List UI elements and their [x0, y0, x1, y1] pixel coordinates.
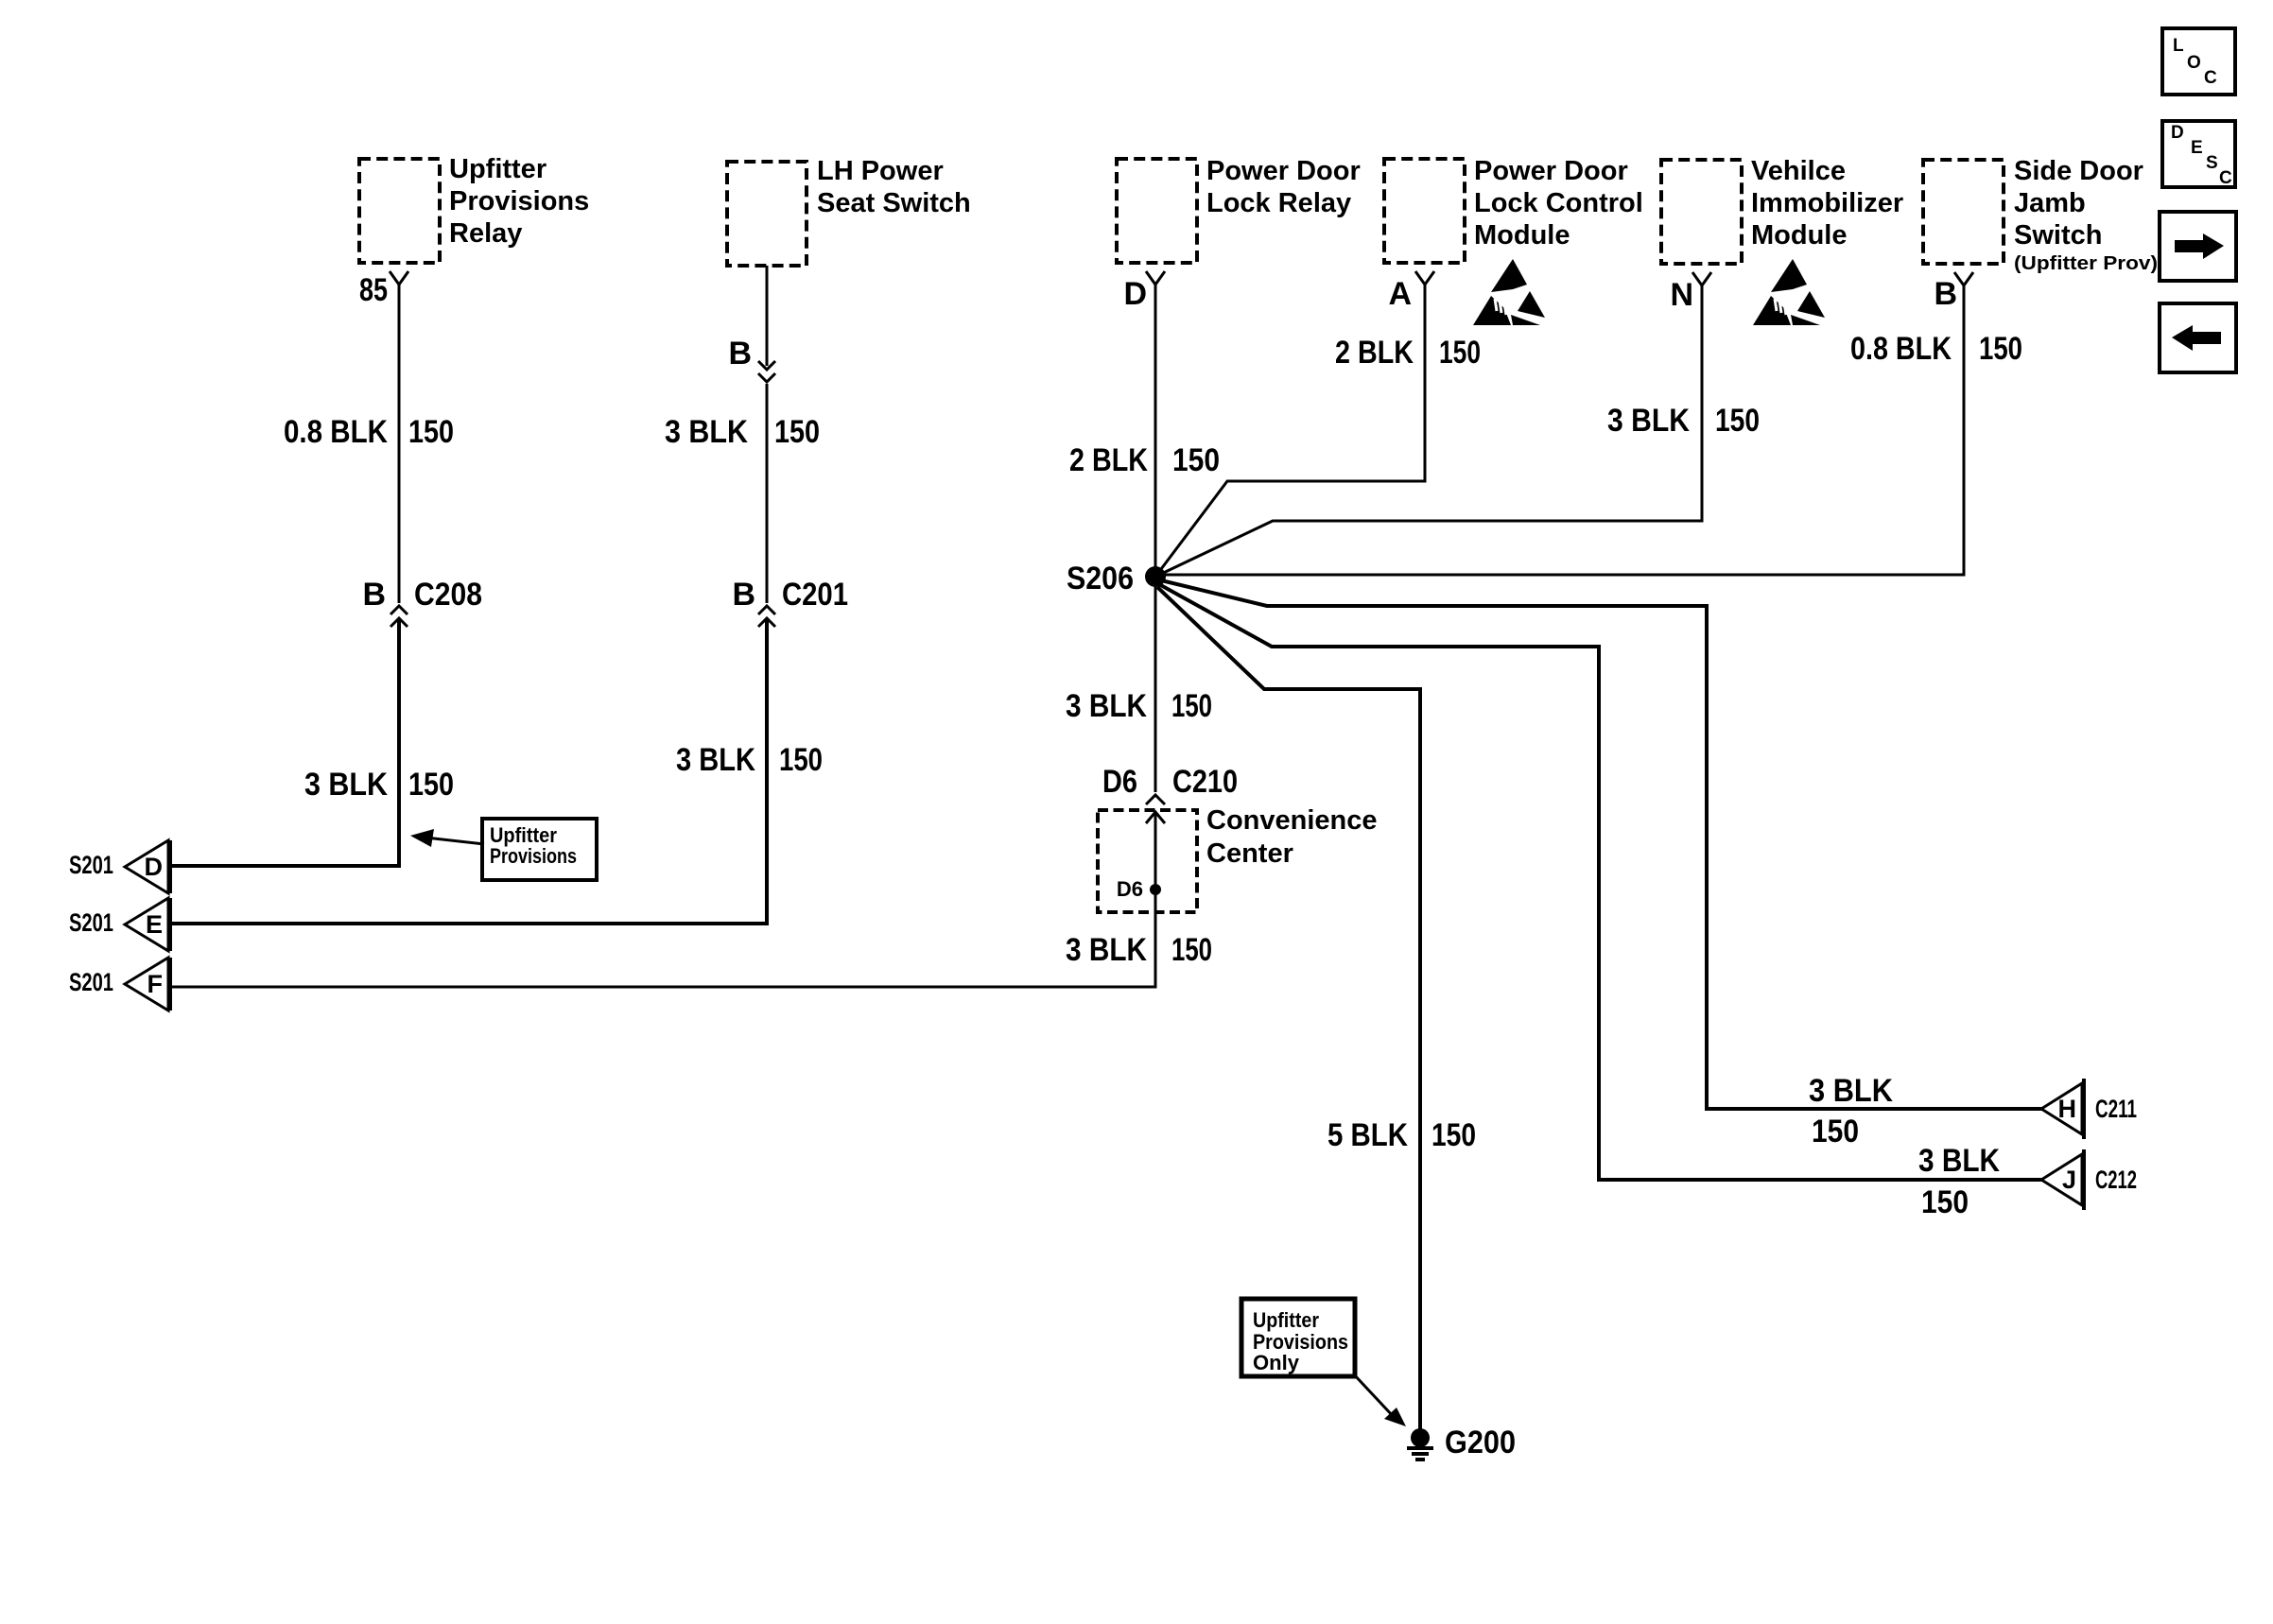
svg-text:Upfitter: Upfitter: [449, 154, 547, 184]
svg-text:LH Power: LH Power: [817, 156, 944, 186]
wire: inside Convenience Center through D6 to corner, left to S201 F: [170, 815, 1155, 987]
svg-text:G200: G200: [1445, 1425, 1516, 1460]
svg-text:D6: D6: [1117, 877, 1143, 901]
svg-text:Module: Module: [1474, 220, 1570, 251]
wire: S206 diagonal to ground branch: [1157, 587, 1420, 1429]
svg-text:A: A: [1388, 276, 1412, 312]
svg-text:150: 150: [774, 414, 820, 450]
svg-text:3 BLK: 3 BLK: [1918, 1143, 2000, 1179]
svg-text:C211: C211: [2095, 1095, 2137, 1123]
svg-text:Only: Only: [1253, 1351, 1300, 1374]
svg-text:C: C: [2219, 168, 2232, 188]
connector C201 double chevron: [758, 606, 775, 627]
svg-text:Lock Control: Lock Control: [1474, 188, 1643, 218]
connector C210 chevron: [1146, 795, 1165, 804]
pin connector Y at pin D: [1146, 271, 1165, 288]
svg-text:C: C: [2204, 68, 2217, 88]
wire: S206 diagonal to J C212 branch: [1157, 583, 2042, 1180]
svg-text:150: 150: [1171, 932, 1212, 968]
svg-text:5 BLK: 5 BLK: [1327, 1117, 1408, 1153]
component box: LH Power Seat Switch: [727, 162, 807, 266]
svg-text:150: 150: [1171, 688, 1212, 724]
svg-text:S201: S201: [69, 851, 113, 879]
wire: S206 horizontal to B branch of side door jamb switch: [1155, 289, 1964, 575]
svg-text:Immobilizer: Immobilizer: [1751, 188, 1903, 218]
splice triangle S201 F: [125, 958, 168, 1011]
wire: S206 diagonal to A branch: [1155, 288, 1425, 577]
svg-text:Relay: Relay: [449, 218, 522, 249]
ESD symbol near Vehicle Immobilizer Module: [1753, 259, 1825, 325]
svg-text:3 BLK: 3 BLK: [1607, 403, 1690, 439]
pin connector Y at pin B of Side Door Jamb Switch: [1954, 272, 1973, 289]
wire: S206 down to connector C210: [1154, 577, 1157, 792]
svg-text:0.8 BLK: 0.8 BLK: [1850, 331, 1952, 367]
component box: Power Door Lock Relay: [1117, 159, 1197, 263]
svg-text:D: D: [1123, 276, 1147, 312]
svg-text:Center: Center: [1206, 838, 1293, 869]
svg-text:S201: S201: [69, 968, 113, 996]
svg-text:Module: Module: [1751, 220, 1848, 251]
svg-text:2 BLK: 2 BLK: [1335, 335, 1414, 371]
svg-text:E: E: [2191, 138, 2203, 158]
svg-text:3 BLK: 3 BLK: [676, 742, 755, 778]
svg-text:150: 150: [1921, 1184, 1969, 1220]
callout box: Upfitter Provisions Only: [1241, 1299, 1355, 1376]
svg-text:D6: D6: [1102, 764, 1137, 800]
wire: S206 diagonal to H C211 branch: [1157, 579, 2042, 1109]
component box: Upfitter Provisions Relay: [359, 159, 440, 263]
svg-text:150: 150: [1715, 403, 1760, 439]
svg-text:B: B: [732, 577, 755, 613]
svg-text:C208: C208: [414, 577, 482, 613]
svg-text:S: S: [2206, 153, 2218, 173]
svg-text:Lock Relay: Lock Relay: [1206, 188, 1351, 218]
svg-text:150: 150: [779, 742, 823, 778]
svg-text:150: 150: [1439, 335, 1481, 371]
svg-text:150: 150: [1812, 1114, 1859, 1149]
splice node S206: [1145, 566, 1166, 587]
svg-text:Convenience: Convenience: [1206, 805, 1378, 836]
callout box: Upfitter Provisions: [482, 819, 597, 880]
svg-text:D: D: [145, 853, 164, 881]
svg-text:85: 85: [359, 272, 388, 308]
component box: Convenience Center: [1098, 810, 1197, 912]
wire: C201 down to corner, left to S201 E: [170, 620, 767, 924]
svg-text:Power Door: Power Door: [1206, 156, 1361, 186]
callout arrow to wire: [425, 838, 484, 844]
svg-text:150: 150: [408, 414, 454, 450]
svg-text:C210: C210: [1172, 764, 1238, 800]
svg-text:B: B: [728, 336, 752, 371]
ESD symbol near Power Door Lock Control Module: [1473, 259, 1545, 325]
node D6 inside Convenience Center: [1150, 884, 1161, 895]
wire: pin D down to splice S206: [1154, 285, 1157, 577]
svg-text:(Upfitter Prov): (Upfitter Prov): [2014, 253, 2158, 274]
svg-text:S206: S206: [1067, 561, 1134, 596]
svg-text:Vehilce: Vehilce: [1751, 156, 1846, 186]
svg-text:Seat Switch: Seat Switch: [817, 188, 971, 218]
pin connector Y at pin N: [1692, 272, 1711, 289]
svg-text:2 BLK: 2 BLK: [1069, 442, 1148, 478]
svg-text:150: 150: [1979, 331, 2022, 367]
connector triangle J C212: [2041, 1154, 2082, 1205]
svg-text:Upfitter: Upfitter: [1253, 1308, 1319, 1332]
right arrow navigation box: [2160, 212, 2236, 281]
svg-text:0.8 BLK: 0.8 BLK: [284, 414, 388, 450]
component box: Power Door Lock Control Module: [1384, 159, 1465, 263]
svg-text:3 BLK: 3 BLK: [304, 767, 388, 803]
connector triangle H C211: [2041, 1083, 2082, 1134]
svg-text:B: B: [362, 577, 386, 613]
svg-text:F: F: [147, 970, 164, 998]
ground G200 symbol: [1411, 1428, 1430, 1447]
connector C208 double chevron: [390, 606, 408, 627]
wire: LH Power Seat Switch pin B down: [766, 266, 769, 366]
svg-text:C201: C201: [782, 577, 848, 613]
wire: C208 down to corner, left to S201 D: [170, 620, 399, 866]
left arrow navigation box: [2160, 303, 2236, 372]
svg-text:S201: S201: [69, 908, 113, 937]
svg-text:C212: C212: [2095, 1166, 2137, 1194]
svg-text:J: J: [2062, 1166, 2076, 1194]
svg-text:D: D: [2171, 123, 2184, 143]
svg-text:L: L: [2173, 36, 2184, 56]
wire: pin 85 down to connector C208: [398, 285, 401, 603]
svg-text:Jamb: Jamb: [2014, 188, 2086, 218]
pin connector Y at pin A: [1415, 271, 1434, 288]
wire: seat switch B connector down to C201: [766, 384, 769, 603]
component box: Side Door Jamb Switch: [1923, 160, 2004, 264]
svg-text:B: B: [1934, 276, 1957, 312]
callout arrow to G200: [1353, 1373, 1395, 1418]
LOC legend box: [2162, 28, 2235, 95]
pin connector Y at pin 85: [390, 271, 408, 288]
svg-text:3 BLK: 3 BLK: [1066, 688, 1147, 724]
wire: S206 diagonal to N branch: [1155, 289, 1702, 577]
connector C210 arrowhead into Convenience Center: [1146, 812, 1165, 828]
splice triangle S201 D: [125, 840, 168, 893]
connector B double chevron at seat switch: [758, 361, 775, 382]
svg-text:150: 150: [1431, 1117, 1476, 1153]
svg-text:Provisions: Provisions: [490, 844, 577, 868]
splice triangle S201 E: [125, 898, 168, 951]
svg-text:Side Door: Side Door: [2014, 156, 2143, 186]
svg-text:3 BLK: 3 BLK: [1809, 1073, 1893, 1109]
svg-text:Switch: Switch: [2014, 220, 2102, 251]
svg-text:150: 150: [408, 767, 454, 803]
svg-text:E: E: [146, 910, 163, 939]
svg-text:H: H: [2058, 1095, 2077, 1123]
DESC legend box: [2162, 121, 2235, 187]
svg-text:N: N: [1670, 277, 1693, 313]
component box: Vehicle Immobilizer Module: [1661, 160, 1742, 264]
svg-text:Power Door: Power Door: [1474, 156, 1628, 186]
svg-text:150: 150: [1172, 442, 1220, 478]
svg-text:Provisions: Provisions: [449, 186, 589, 216]
svg-text:3 BLK: 3 BLK: [665, 414, 748, 450]
svg-text:3 BLK: 3 BLK: [1066, 932, 1147, 968]
svg-text:O: O: [2187, 53, 2201, 73]
